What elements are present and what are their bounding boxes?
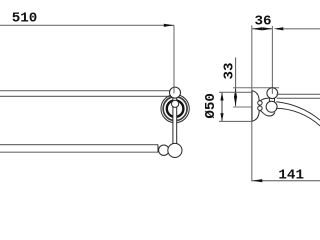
dimension line 33 [235, 58, 237, 107]
lower towel bar, top outline (front view) [0, 144, 158, 146]
extension line at right end of 510 [173, 25, 175, 87]
arrowhead of dimension 141 (left tip) [252, 179, 262, 182]
arrowhead of dimension Ø50 (down tip) [220, 113, 223, 121]
neck top outline (side view) [260, 98, 269, 101]
top extension line for Ø50 [219, 91, 252, 93]
dimension line Ø50 [221, 92, 223, 121]
decorative bead on flange (upper) [258, 101, 262, 105]
top ball joint of upper bar [170, 87, 181, 98]
arrowhead of dimension 36 (right tip) [262, 27, 272, 30]
svg-text:141: 141 [278, 167, 304, 183]
wall flange dome profile (side view) [252, 91, 259, 122]
arrowhead of dimension 33 (down tip) [234, 96, 237, 106]
flange back plate edge on wall [251, 91, 253, 122]
extension line tail inside upper ball [271, 88, 273, 94]
collar bottom outline under lower ball (side view) [260, 110, 275, 116]
straight bar bottom outline (side view) [277, 97, 320, 99]
upper towel bar, top outline (front view) [0, 90, 171, 92]
dimension line of cropped right-hand dimension [283, 28, 320, 30]
dimension line 36 [252, 28, 273, 30]
curved arm top outline (side view) [276, 102, 320, 120]
waist line between balls (right) [274, 97, 276, 101]
wall / extension line (side view) [251, 25, 253, 181]
wall flange concentric circles (front view) [161, 94, 189, 122]
dimension line 141 [252, 180, 320, 182]
waist line between balls (left) [268, 97, 270, 101]
straight bar top outline (side view) [276, 93, 320, 95]
arrowhead of dimension 33 (up tip) [234, 88, 237, 98]
svg-text:510: 510 [12, 11, 38, 27]
svg-text:36: 36 [254, 13, 271, 29]
arrowhead of dimension 36 (left tip) [252, 27, 262, 30]
svg-text:Ø50: Ø50 [203, 93, 219, 119]
vertical post over flange (front view) [173, 94, 177, 146]
arrowhead of dimension 510 (right tip) [164, 24, 174, 27]
arrowhead of dimension Ø50 (up tip) [220, 92, 223, 100]
arrowhead of cropped right-hand dimension [273, 27, 283, 30]
bottom extension line for Ø50 [219, 120, 252, 122]
top extension line for 33 [233, 87, 279, 89]
large lobe of lower bar end finial [168, 143, 182, 157]
lower ball joint (side view) [266, 101, 277, 112]
upper towel bar, bottom outline (front view) [0, 95, 173, 97]
curved arm bottom outline (side view) [276, 108, 320, 126]
lower towel bar, bottom outline (front view) [0, 151, 158, 153]
extension line tail inside top ball [173, 87, 175, 93]
upper ball joint (side view) [267, 88, 278, 99]
lower towel bar end cap edge [157, 145, 159, 153]
small lobe of lower bar end finial [159, 145, 169, 155]
dimension line 510 [0, 24, 174, 26]
small ball at flange center [172, 100, 179, 107]
decorative bead on flange (lower) [258, 106, 262, 110]
extension line on post centerline for 36 [271, 26, 273, 89]
svg-text:33: 33 [222, 62, 238, 79]
bottom extension line for 33 [233, 106, 252, 108]
